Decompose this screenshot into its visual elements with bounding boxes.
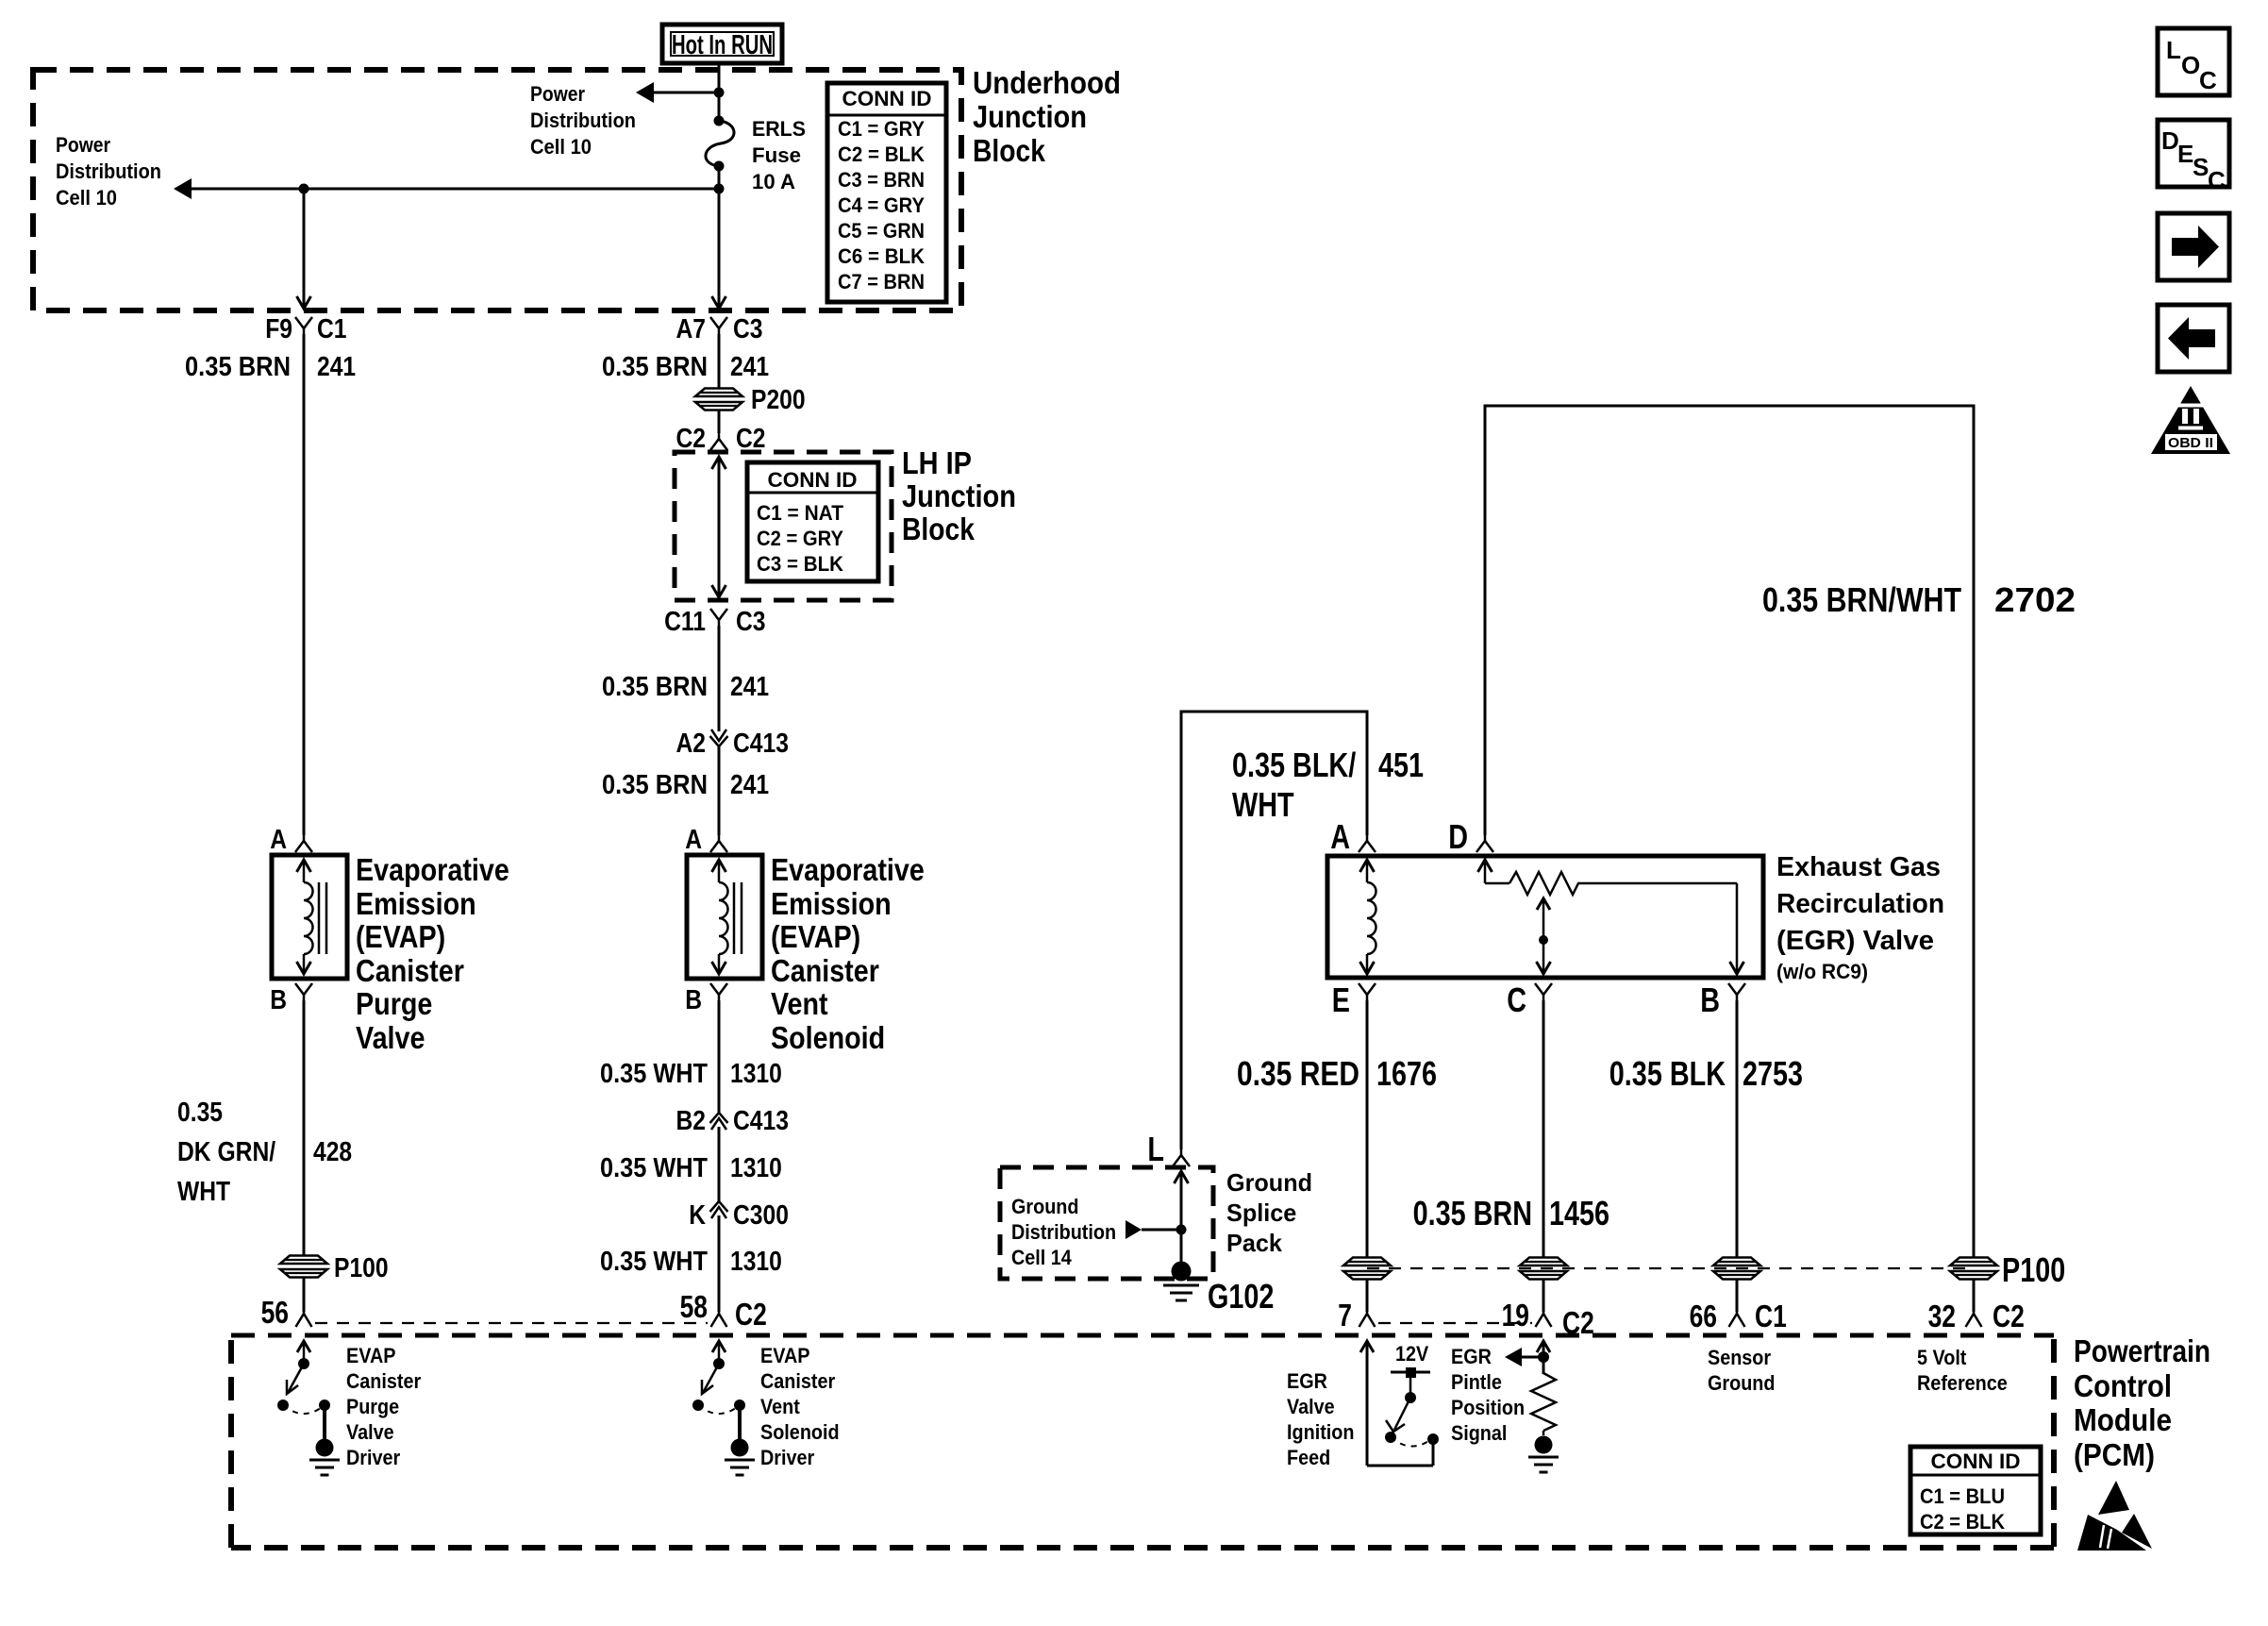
svg-text:P200: P200 (751, 385, 806, 415)
svg-text:C1 = NAT: C1 = NAT (757, 501, 844, 525)
pin F9 / C1 connector (265, 314, 346, 344)
EGR valve ignition feed switch (1360, 1341, 1439, 1466)
label Evaporative Emission (EVAP) Canister Vent Solenoid (771, 852, 925, 1055)
pin C11 / C3 connector (664, 607, 765, 637)
svg-text:C6 = BLK: C6 = BLK (838, 244, 925, 268)
pin B purge valve (270, 983, 312, 1015)
svg-text:0.35 BRN: 0.35 BRN (602, 672, 708, 702)
svg-text:Feed: Feed (1287, 1446, 1330, 1469)
wire 2753 BLK: EGR B to pin 66 (1609, 1000, 1803, 1258)
svg-text:0.35: 0.35 (177, 1098, 223, 1128)
svg-text:32: 32 (1928, 1299, 1956, 1333)
EGR wiper (1537, 898, 1551, 974)
connector P200 (695, 385, 806, 415)
svg-text:EGR: EGR (1287, 1369, 1327, 1393)
svg-text:Signal: Signal (1451, 1421, 1507, 1445)
EVAP canister vent solenoid driver (692, 1341, 755, 1475)
svg-text:Canister: Canister (346, 1369, 422, 1393)
svg-text:Fuse: Fuse (752, 143, 801, 167)
svg-text:Junction: Junction (902, 478, 1016, 513)
svg-text:B: B (685, 985, 702, 1015)
LH IP Junction Block dashed outline (675, 452, 892, 600)
svg-text:0.35 BLK/: 0.35 BLK/ (1232, 746, 1356, 784)
wires connectors to PCM pins 7/19/66/32 (1367, 1280, 1974, 1312)
svg-text:0.35 BLK: 0.35 BLK (1609, 1054, 1726, 1093)
svg-text:(EVAP): (EVAP) (356, 919, 445, 954)
PCM CONN ID table (1910, 1447, 2041, 1534)
svg-text:56: 56 (261, 1295, 289, 1330)
pin A purge valve (270, 825, 312, 855)
svg-text:E: E (1332, 981, 1350, 1019)
svg-text:C: C (2199, 66, 2217, 94)
svg-text:EVAP: EVAP (760, 1344, 810, 1367)
pass-through connector B2 / C413 (676, 1106, 789, 1136)
svg-text:C11: C11 (664, 607, 706, 637)
svg-text:0.35 WHT: 0.35 WHT (600, 1059, 708, 1089)
svg-text:241: 241 (730, 770, 769, 800)
power feed box "Hot In RUN" (662, 25, 782, 63)
label Power Distribution Cell 10 (left) (56, 133, 161, 210)
svg-text:O: O (2181, 51, 2200, 79)
svg-text:C: C (1507, 981, 1526, 1019)
OBD II symbol (2151, 386, 2230, 454)
svg-text:0.35 BRN: 0.35 BRN (602, 770, 708, 800)
label EGR Pintle Position Signal (1451, 1345, 1525, 1445)
pin D EGR (1448, 817, 1493, 856)
label Ground Distribution Cell 14 (1011, 1195, 1116, 1269)
svg-text:1676: 1676 (1376, 1054, 1437, 1093)
svg-text:Solenoid: Solenoid (760, 1420, 840, 1444)
legend icon LOC (2158, 28, 2229, 95)
EGR pintle position signal input (1505, 1341, 1559, 1472)
pass-through connector A2 / C413 (676, 729, 789, 759)
label Powertrain Control Module (PCM) (2074, 1333, 2210, 1472)
legend icon DESC (2158, 120, 2229, 194)
pin C EGR (1507, 981, 1552, 1019)
svg-text:LH IP: LH IP (902, 445, 972, 480)
label 5 Volt Reference (1917, 1346, 2008, 1395)
svg-text:(PCM): (PCM) (2074, 1437, 2155, 1472)
wire 241 BRN to C413 (602, 626, 769, 731)
svg-text:19: 19 (1502, 1298, 1529, 1333)
svg-text:Power: Power (530, 82, 585, 106)
svg-text:12V: 12V (1395, 1342, 1428, 1366)
svg-text:Block: Block (902, 511, 976, 546)
svg-text:C1: C1 (1755, 1299, 1787, 1333)
svg-text:ERLS: ERLS (752, 117, 806, 141)
svg-text:(EVAP): (EVAP) (771, 919, 860, 954)
svg-text:D: D (2161, 126, 2179, 155)
svg-text:0.35 BRN: 0.35 BRN (185, 352, 291, 382)
legend icon forward arrow (2158, 213, 2229, 280)
ground G102 (1163, 1262, 1274, 1316)
ESD sensitive device symbol (2077, 1481, 2152, 1551)
svg-text:Vent: Vent (771, 986, 828, 1021)
svg-text:C300: C300 (733, 1200, 789, 1231)
arrow to Power Distribution Cell 10 (upper) (636, 82, 725, 103)
svg-text:Purge: Purge (356, 986, 432, 1021)
pin 32 / C2 (1928, 1299, 2025, 1333)
label Exhaust Gas Recirculation (EGR) Valve (1776, 852, 1944, 983)
svg-text:L: L (1147, 1130, 1164, 1168)
svg-text:DK GRN/: DK GRN/ (177, 1137, 275, 1167)
EGR coil (1360, 860, 1376, 974)
wire: UJB drop to F9 (297, 189, 311, 309)
svg-text:P100: P100 (2002, 1250, 2065, 1289)
svg-text:Ground: Ground (1226, 1168, 1312, 1197)
svg-text:Cell 10: Cell 10 (530, 135, 592, 159)
svg-text:7: 7 (1338, 1298, 1352, 1333)
svg-text:1310: 1310 (730, 1247, 782, 1277)
svg-text:A: A (1330, 817, 1350, 856)
svg-text:G102: G102 (1208, 1277, 1274, 1316)
svg-text:C3: C3 (736, 607, 766, 637)
svg-text:Junction: Junction (973, 99, 1087, 134)
svg-text:C2 = GRY: C2 = GRY (757, 527, 843, 550)
svg-text:2753: 2753 (1743, 1054, 1803, 1093)
svg-text:(w/o RC9): (w/o RC9) (1776, 960, 1868, 983)
svg-text:Position: Position (1451, 1396, 1525, 1419)
wire 1310 WHT to K (600, 1127, 782, 1201)
label Power Distribution Cell 10 (upper) (530, 82, 636, 159)
svg-text:E: E (2177, 140, 2193, 168)
svg-text:0.35 WHT: 0.35 WHT (600, 1247, 708, 1277)
svg-text:C: C (2208, 166, 2226, 194)
svg-text:WHT: WHT (177, 1177, 230, 1207)
label Evaporative Emission (EVAP) Canister Purge Valve (356, 852, 509, 1055)
svg-text:58: 58 (680, 1289, 708, 1324)
svg-text:C4 = GRY: C4 = GRY (838, 193, 925, 217)
svg-text:A: A (685, 825, 702, 855)
wire 241 BRN to P200 (602, 334, 769, 389)
svg-text:CONN ID: CONN ID (1931, 1450, 2021, 1473)
svg-text:C5 = GRN: C5 = GRN (838, 219, 925, 243)
svg-text:C413: C413 (733, 1106, 789, 1136)
Ground Splice Pack dashed outline (1000, 1167, 1213, 1279)
pin B vent solenoid (685, 983, 727, 1015)
svg-text:Module: Module (2074, 1402, 2172, 1437)
label Sensor Ground (1708, 1346, 1776, 1395)
pin L ground splice pack (1147, 1130, 1190, 1168)
pass-through connector K / C300 (689, 1200, 789, 1231)
UJB CONN ID table (827, 83, 946, 302)
wire: fuse to junction (714, 166, 725, 194)
svg-text:Hot In RUN: Hot In RUN (672, 30, 773, 60)
wire 1310 WHT to B2 (600, 1000, 782, 1113)
svg-text:EVAP: EVAP (346, 1344, 396, 1367)
svg-text:0.35 BRN: 0.35 BRN (1413, 1194, 1532, 1232)
EVAP canister vent solenoid (687, 855, 762, 979)
svg-text:Driver: Driver (760, 1446, 815, 1469)
svg-text:C2 = BLK: C2 = BLK (1920, 1510, 2005, 1534)
svg-text:Ground: Ground (1708, 1371, 1776, 1395)
label Underhood Junction Block (973, 65, 1121, 168)
svg-text:Recirculation: Recirculation (1776, 889, 1944, 919)
svg-text:C1 = GRY: C1 = GRY (838, 117, 925, 141)
svg-text:Evaporative: Evaporative (356, 852, 509, 887)
svg-text:K: K (689, 1200, 706, 1231)
svg-text:Block: Block (973, 133, 1046, 168)
pin 58 / C2 (680, 1289, 767, 1332)
svg-text:241: 241 (317, 352, 356, 382)
svg-text:Ground: Ground (1011, 1195, 1079, 1218)
connector dashed line pins 56-58 (315, 1322, 708, 1324)
svg-text:Underhood: Underhood (973, 65, 1121, 100)
svg-text:0.35 BRN/WHT: 0.35 BRN/WHT (1762, 580, 1961, 619)
LH IP CONN ID table (747, 462, 878, 581)
legend icon back arrow (2158, 305, 2229, 372)
svg-text:C1 = BLU: C1 = BLU (1920, 1484, 2005, 1508)
wire: UJB drop to A7 (712, 189, 726, 309)
svg-text:D: D (1448, 817, 1468, 856)
svg-text:Valve: Valve (1287, 1395, 1335, 1418)
svg-text:C1: C1 (317, 314, 347, 344)
label EVAP Canister Purge Valve Driver (346, 1344, 422, 1469)
svg-text:P100: P100 (334, 1253, 389, 1283)
wire: Hot In RUN down to fuse (718, 63, 721, 119)
wire 428 DK GRN/WHT (177, 1000, 352, 1255)
svg-text:66: 66 (1690, 1299, 1717, 1333)
connector P100 (left) (280, 1253, 389, 1283)
arrow to Power Distribution Cell 10 (left) (174, 178, 719, 199)
svg-text:Vent: Vent (760, 1395, 800, 1418)
EVAP canister purge valve solenoid (272, 855, 347, 979)
connector P100 dashed line (1343, 1250, 2065, 1289)
svg-text:428: 428 (313, 1137, 352, 1167)
svg-text:Valve: Valve (356, 1020, 425, 1055)
pin A EGR (1330, 817, 1376, 856)
svg-text:Purge: Purge (346, 1395, 399, 1418)
wire 241 BRN (left drop) (185, 334, 356, 835)
svg-text:Pack: Pack (1226, 1229, 1282, 1257)
svg-text:1456: 1456 (1549, 1194, 1609, 1232)
svg-text:Emission: Emission (771, 886, 892, 921)
svg-text:Powertrain: Powertrain (2074, 1333, 2210, 1368)
svg-text:1310: 1310 (730, 1153, 782, 1183)
wire 451 BLK/WHT: ground splice loop (1181, 712, 1424, 1149)
svg-text:Pintle: Pintle (1451, 1370, 1502, 1394)
svg-text:CONN ID: CONN ID (768, 468, 858, 492)
label EGR Valve Ignition Feed (1287, 1369, 1355, 1469)
pin C2 / C2 connector (676, 411, 766, 454)
svg-text:Emission: Emission (356, 886, 476, 921)
svg-text:Solenoid: Solenoid (771, 1020, 885, 1055)
EGR potentiometer resistor (1478, 860, 1744, 974)
svg-text:Splice: Splice (1226, 1199, 1296, 1227)
wire 241 BRN to EVAP vent A (602, 746, 769, 835)
svg-text:Ignition: Ignition (1287, 1420, 1355, 1444)
svg-text:Driver: Driver (346, 1446, 401, 1469)
svg-text:B2: B2 (676, 1106, 707, 1136)
svg-text:L: L (2166, 36, 2181, 64)
connector dashed line pins 7-19 (1378, 1322, 1532, 1324)
svg-text:0.35 RED: 0.35 RED (1237, 1054, 1359, 1093)
pin 56 (261, 1295, 312, 1330)
svg-text:Reference: Reference (1917, 1371, 2008, 1395)
svg-text:C2: C2 (735, 1297, 767, 1332)
svg-text:0.35 WHT: 0.35 WHT (600, 1153, 708, 1183)
svg-text:A7: A7 (676, 314, 707, 344)
pin 7 (1338, 1298, 1375, 1333)
svg-text:5 Volt: 5 Volt (1917, 1346, 1967, 1369)
svg-text:C3 = BLK: C3 = BLK (757, 552, 843, 576)
EGR valve box (1327, 856, 1763, 978)
pin B EGR (1700, 981, 1745, 1019)
svg-text:C2: C2 (676, 424, 707, 454)
label EVAP Canister Vent Solenoid Driver (760, 1344, 840, 1469)
svg-text:Valve: Valve (346, 1420, 394, 1444)
svg-text:451: 451 (1378, 746, 1424, 784)
wire 2702 BRN/WHT: 5V reference loop (1485, 406, 2076, 1258)
ground splice wire and feed arrow (1126, 1171, 1189, 1262)
wire 1676 RED: EGR E to pin 7 (1237, 1000, 1437, 1258)
svg-text:Cell 10: Cell 10 (56, 186, 117, 210)
label Ground Splice Pack (1226, 1168, 1312, 1257)
svg-text:B: B (270, 985, 287, 1015)
pin 66 / C1 (1690, 1299, 1787, 1333)
wire 1456 BRN: EGR C to pin 19 (1413, 1000, 1609, 1258)
svg-text:WHT: WHT (1232, 785, 1294, 824)
svg-text:Control: Control (2074, 1368, 2172, 1403)
svg-text:C7 = BRN: C7 = BRN (838, 270, 925, 293)
wire through LH IP junction block (712, 457, 726, 597)
pin A vent solenoid (685, 825, 727, 855)
svg-text:C3: C3 (733, 314, 763, 344)
svg-text:Evaporative: Evaporative (771, 852, 925, 887)
svg-text:241: 241 (730, 672, 769, 702)
wire P100 to pin 56 (303, 1278, 306, 1312)
svg-text:A: A (270, 825, 287, 855)
svg-text:C2: C2 (1993, 1299, 2025, 1333)
pin 19 / C2 (1502, 1298, 1594, 1340)
svg-text:Sensor: Sensor (1708, 1346, 1771, 1369)
svg-text:Cell 14: Cell 14 (1011, 1246, 1072, 1269)
label LH IP Junction Block (902, 445, 1016, 546)
svg-text:B: B (1700, 981, 1720, 1019)
svg-text:Power: Power (56, 133, 110, 157)
svg-text:(EGR) Valve: (EGR) Valve (1776, 926, 1934, 956)
pin A7 / C3 connector (676, 314, 763, 344)
svg-text:0.35 BRN: 0.35 BRN (602, 352, 708, 382)
svg-text:Canister: Canister (760, 1369, 836, 1393)
label ERLS Fuse 10 A (752, 117, 806, 193)
svg-text:Exhaust Gas: Exhaust Gas (1776, 852, 1941, 882)
svg-text:2702: 2702 (1994, 580, 2076, 619)
svg-text:Distribution: Distribution (530, 109, 636, 132)
svg-text:CONN ID: CONN ID (842, 87, 932, 110)
svg-text:Canister: Canister (771, 953, 879, 988)
pin E EGR (1332, 981, 1376, 1019)
svg-text:EGR: EGR (1451, 1345, 1492, 1368)
svg-text:C2 = BLK: C2 = BLK (838, 142, 925, 166)
wire 1310 WHT to pin 58 (600, 1215, 782, 1312)
Underhood Junction Block dashed outline (33, 70, 961, 310)
svg-text:S: S (2193, 153, 2209, 181)
svg-text:241: 241 (730, 352, 769, 382)
svg-text:Distribution: Distribution (56, 159, 161, 183)
fuse ERLS 10 A (706, 116, 734, 172)
svg-text:C2: C2 (736, 424, 766, 454)
svg-text:A2: A2 (676, 729, 707, 759)
svg-text:OBD II: OBD II (2168, 435, 2213, 451)
svg-text:C3 = BRN: C3 = BRN (838, 168, 925, 192)
svg-text:Distribution: Distribution (1011, 1220, 1116, 1244)
svg-text:F9: F9 (265, 314, 292, 344)
EVAP canister purge valve driver (277, 1341, 340, 1475)
svg-text:Canister: Canister (356, 953, 464, 988)
svg-text:1310: 1310 (730, 1059, 782, 1089)
Powertrain Control Module dashed outline (231, 1335, 2054, 1548)
svg-text:C413: C413 (733, 729, 789, 759)
svg-text:10 A: 10 A (752, 170, 795, 193)
